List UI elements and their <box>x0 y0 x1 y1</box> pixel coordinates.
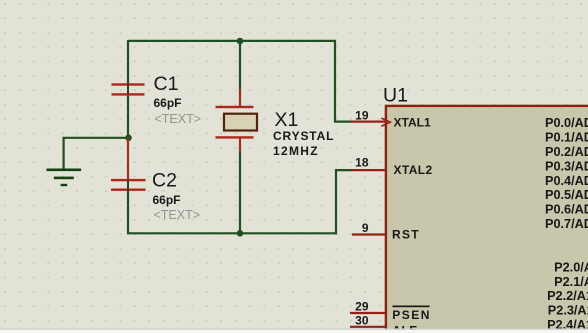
pin 19 (XTAL1) <box>351 120 387 122</box>
svg-text:P0.0/AD0: P0.0/AD0 <box>545 116 588 130</box>
crystal X1 <box>216 89 258 152</box>
pin 18 (XTAL2) <box>351 169 387 171</box>
svg-text:<TEXT>: <TEXT> <box>154 208 201 222</box>
svg-text:66pF: 66pF <box>154 96 182 110</box>
svg-text:XTAL1: XTAL1 <box>394 115 431 129</box>
svg-text:P0.1/AD1: P0.1/AD1 <box>545 131 588 145</box>
svg-text:P2.1/A9: P2.1/A9 <box>554 275 588 289</box>
capacitor C2 <box>111 138 146 212</box>
svg-text:18: 18 <box>355 156 369 170</box>
svg-text:P0.2/AD2: P0.2/AD2 <box>545 145 588 159</box>
svg-text:C2: C2 <box>152 170 177 192</box>
svg-text:P0.6/AD6: P0.6/AD6 <box>545 203 588 217</box>
svg-text:RST: RST <box>392 228 420 242</box>
pin 29 (PSEN) <box>350 312 387 314</box>
capacitor C1 <box>112 83 145 95</box>
wire: ground branch <box>64 138 129 170</box>
svg-text:P2.0/A8: P2.0/A8 <box>554 260 588 274</box>
svg-text:P0.3/AD3: P0.3/AD3 <box>545 159 588 173</box>
svg-text:P2.2/A10: P2.2/A10 <box>547 289 588 303</box>
svg-text:9: 9 <box>362 221 369 235</box>
bottom window strip <box>0 328 588 333</box>
wire: crystal bottom lead (green part) <box>239 151 241 234</box>
svg-text:66pF: 66pF <box>153 193 181 207</box>
svg-text:19: 19 <box>355 109 369 123</box>
pin 30 (ALE) <box>350 326 387 328</box>
svg-text:12MHZ: 12MHZ <box>273 144 319 158</box>
svg-text:30: 30 <box>355 314 369 328</box>
svg-text:P2.3/A11: P2.3/A11 <box>548 304 588 318</box>
svg-text:CRYSTAL: CRYSTAL <box>273 129 334 143</box>
ground <box>47 169 82 187</box>
svg-text:XTAL2: XTAL2 <box>394 163 433 177</box>
wire: C1 top lead <box>127 40 129 84</box>
svg-text:PSEN: PSEN <box>392 308 431 322</box>
IC U1 body <box>386 106 588 333</box>
wire: C1 bottom lead to ground junction <box>127 95 129 139</box>
pin XTAL1 clock mark <box>381 118 390 126</box>
wire: crystal top lead (green part) <box>239 40 241 90</box>
wire top: C1 top to XTAL1 <box>128 41 352 122</box>
pin 9 (RST) <box>352 233 387 235</box>
svg-text:<TEXT>: <TEXT> <box>155 112 202 126</box>
pin label PSEN with overline <box>392 306 431 322</box>
svg-text:P0.4/AD4: P0.4/AD4 <box>545 174 588 188</box>
svg-text:29: 29 <box>355 300 369 314</box>
junction node at crystal bottom <box>237 230 244 237</box>
svg-text:P0.5/AD5: P0.5/AD5 <box>545 188 588 202</box>
svg-text:X1: X1 <box>275 109 299 131</box>
junction node at crystal top <box>237 38 244 45</box>
svg-text:P0.7/AD7: P0.7/AD7 <box>545 217 588 231</box>
junction node at ground branch <box>125 135 132 142</box>
wire bottom: C2 bottom to XTAL2 <box>128 170 352 233</box>
svg-text:U1: U1 <box>383 85 408 107</box>
svg-text:C1: C1 <box>154 73 179 95</box>
